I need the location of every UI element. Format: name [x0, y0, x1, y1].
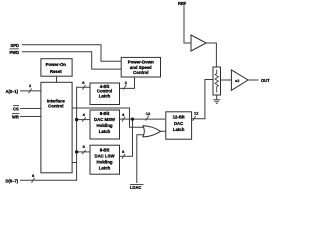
wire bus to LSW latch — [77, 151, 90, 153]
wire MSW latch out — [120, 118, 133, 120]
wire A(0-1) input — [20, 90, 41, 92]
bus slash DAC latch in — [146, 116, 149, 121]
wire strobe interface to OR gate — [72, 108, 144, 127]
svg-text:12-Bit: 12-Bit — [173, 115, 186, 120]
svg-text:8-Bit: 8-Bit — [100, 147, 110, 152]
wire OR gate out — [161, 130, 166, 132]
wire D(0-7) data bus — [20, 87, 90, 180]
svg-text:WR: WR — [12, 115, 19, 120]
box 8-bit DAC MSW holding latch — [90, 110, 120, 139]
wire interface-bus stub — [72, 162, 77, 164]
svg-text:Holding: Holding — [97, 159, 113, 164]
wire amp out — [248, 79, 259, 81]
bus slash control latch out — [123, 85, 126, 90]
junction MSW bus dot — [75, 118, 78, 121]
svg-text:D(0–7): D(0–7) — [6, 178, 19, 183]
svg-text:Power-On: Power-On — [46, 62, 67, 67]
wire DAC latch out to resistor string — [192, 80, 213, 119]
svg-text:OUT: OUT — [261, 78, 270, 83]
bus slash DAC latch out — [193, 116, 196, 121]
box power-down and speed control — [121, 57, 160, 77]
svg-text:Latch: Latch — [99, 165, 111, 170]
svg-text:x2: x2 — [235, 78, 240, 83]
wire CS input — [20, 108, 41, 110]
svg-text:Control: Control — [48, 103, 63, 108]
ground — [213, 100, 220, 104]
wire SPD to power-down box — [22, 45, 121, 62]
svg-text:REF: REF — [178, 1, 187, 6]
op-amp x2 output amp — [231, 70, 248, 90]
resistor zigzag — [215, 70, 218, 93]
wire WR input — [20, 116, 41, 118]
wire 12-bit bus to DAC latch — [133, 118, 166, 120]
svg-text:Power-Down: Power-Down — [128, 59, 154, 64]
svg-text:12: 12 — [146, 111, 151, 116]
box power-on reset — [41, 59, 72, 76]
junction 12-bit bus dot — [131, 118, 134, 121]
svg-text:12: 12 — [194, 111, 199, 116]
box 12-bit DAC latch — [166, 112, 192, 139]
bus slash LSW latch in — [82, 150, 86, 154]
svg-text:Latch: Latch — [173, 127, 185, 132]
bus slash LSW latch out — [122, 154, 125, 159]
bus slash MSW latch in — [82, 117, 86, 121]
bus slash MSW latch out — [122, 117, 125, 122]
wire resistor to ground lead — [216, 95, 218, 100]
svg-text:Holding: Holding — [97, 123, 113, 128]
bus slash control latch in — [83, 85, 86, 90]
wire control latch to power-down box — [120, 77, 135, 88]
svg-text:Reset: Reset — [50, 69, 62, 74]
svg-text:DAC LSW: DAC LSW — [94, 153, 115, 158]
bus slash A(0-1) — [29, 89, 32, 94]
wire PWD to power-down box — [22, 52, 121, 69]
svg-text:Latch: Latch — [99, 129, 111, 134]
svg-text:8-Bit: 8-Bit — [100, 111, 110, 116]
svg-text:PWD: PWD — [10, 50, 20, 55]
svg-text:and Speed: and Speed — [130, 65, 152, 70]
junction LSW bus dot — [75, 150, 78, 153]
wire buffer out to resistor top — [206, 43, 216, 67]
box 4-bit control latch — [90, 83, 120, 105]
svg-text:A(0–1): A(0–1) — [6, 89, 19, 94]
op-amp reference buffer — [191, 35, 206, 51]
svg-text:DAC MSW: DAC MSW — [94, 117, 116, 122]
svg-text:DAC: DAC — [174, 121, 183, 126]
wire bus to MSW latch — [77, 119, 90, 121]
svg-text:LDAC: LDAC — [130, 185, 141, 189]
wire POR to interface stub — [56, 76, 58, 82]
svg-text:Control: Control — [133, 70, 148, 75]
wire LSW latch out riser — [120, 119, 133, 156]
svg-text:CS: CS — [13, 107, 19, 112]
wire LDAC riser to OR gate — [137, 135, 144, 183]
box interface control — [41, 82, 72, 173]
svg-text:SPD: SPD — [11, 43, 19, 48]
bus slash D(0-7) — [32, 178, 35, 183]
resistor string box — [213, 67, 221, 95]
svg-text:Latch: Latch — [99, 94, 111, 99]
OR gate — [143, 126, 161, 137]
wire REF down to buffer — [184, 6, 191, 44]
box 8-bit DAC LSW holding latch — [90, 145, 120, 174]
wire resistor string to amp — [221, 79, 232, 81]
